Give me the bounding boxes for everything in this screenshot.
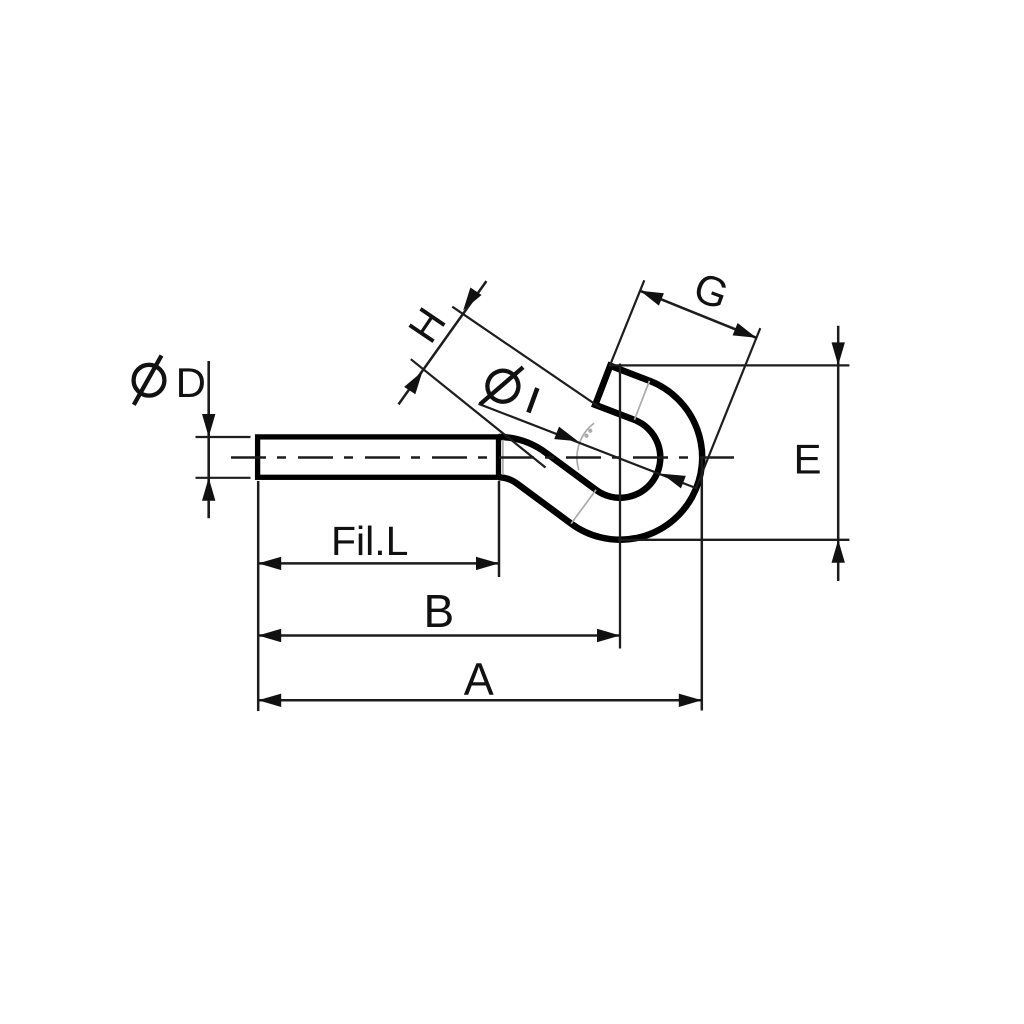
svg-text:Fil.L: Fil.L	[331, 518, 408, 564]
svg-text:E: E	[794, 435, 822, 482]
svg-text:B: B	[424, 585, 455, 637]
svg-text:D: D	[176, 359, 206, 406]
svg-text:A: A	[464, 653, 494, 704]
